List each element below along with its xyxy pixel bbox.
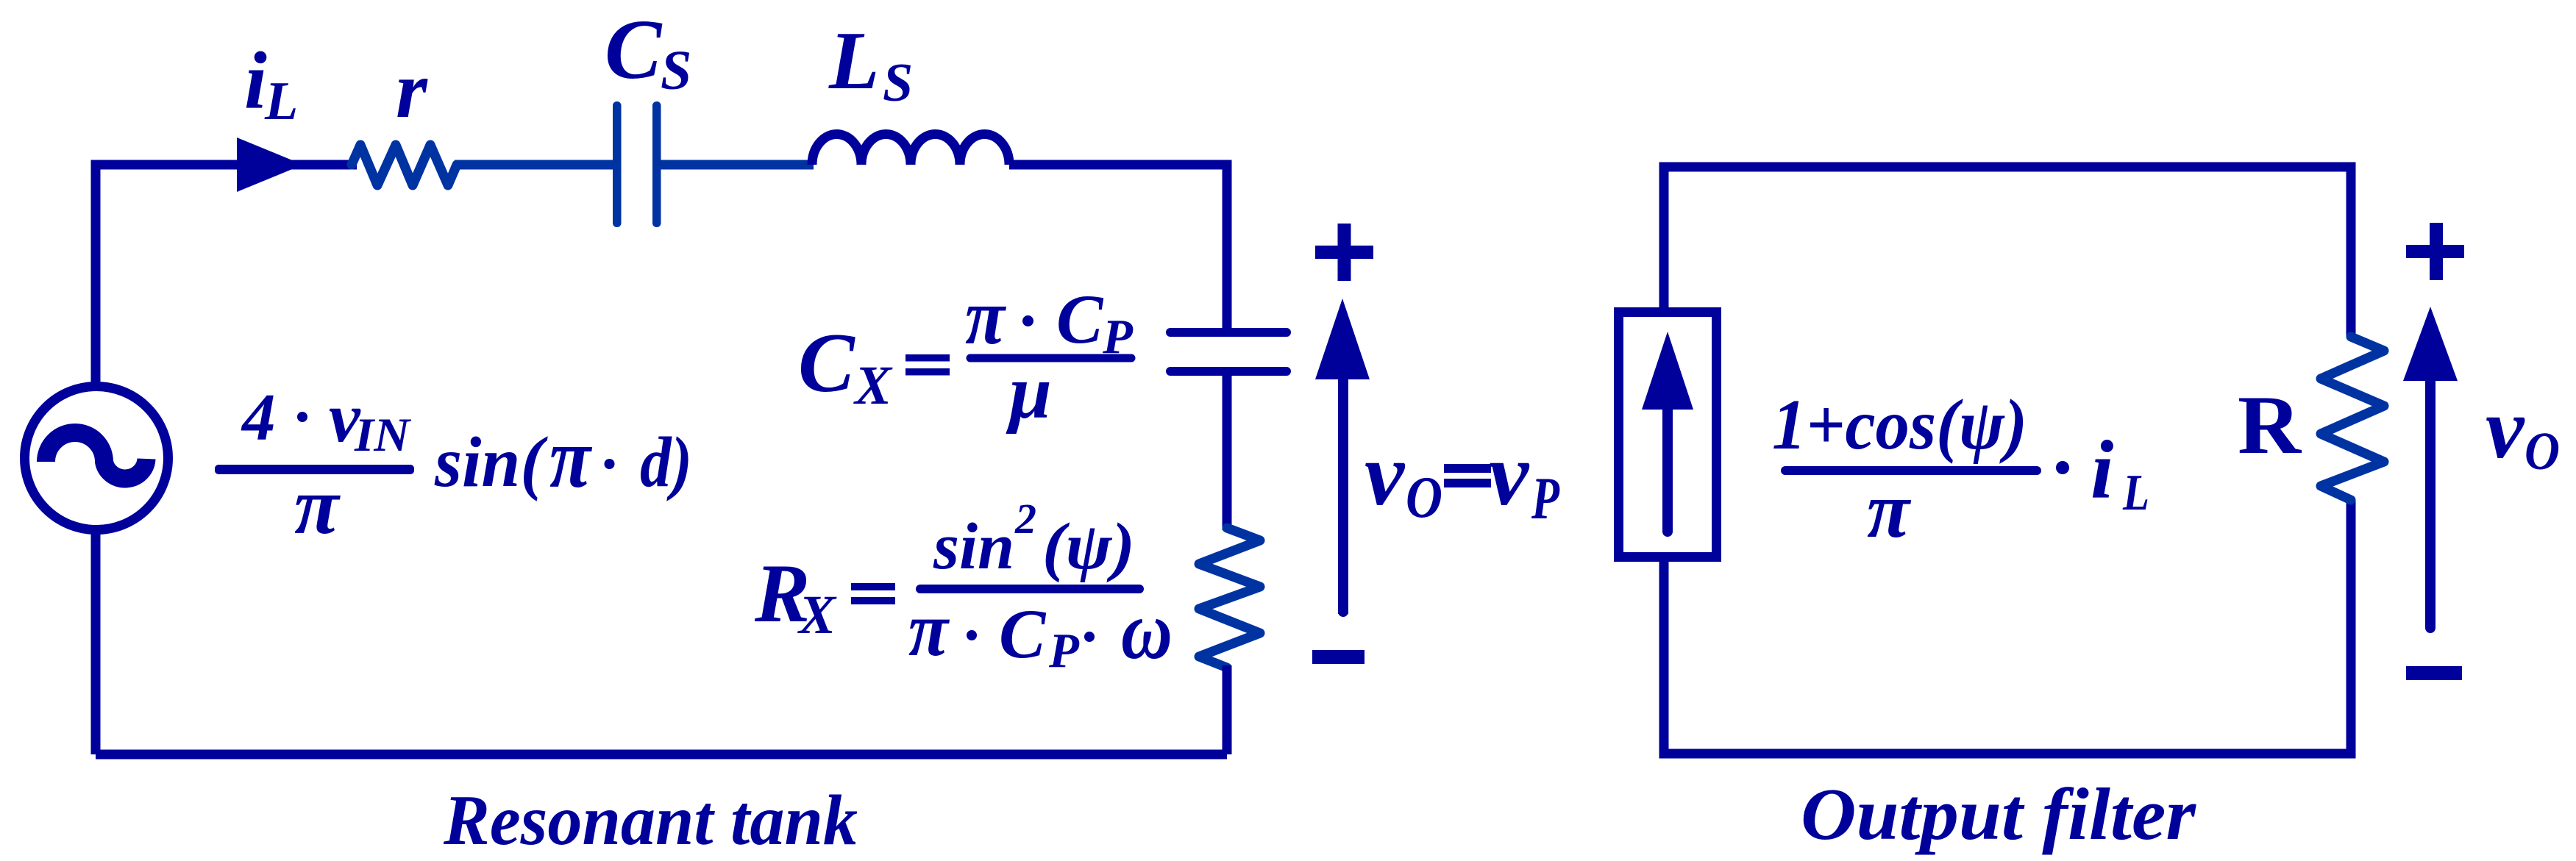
svg-text:C: C xyxy=(798,316,855,410)
minus sign right xyxy=(2406,666,2462,680)
svg-text:sin: sin xyxy=(933,510,1014,583)
inductor Ls xyxy=(812,134,1009,165)
svg-text:X: X xyxy=(853,355,893,416)
svg-text:1+cos(ψ): 1+cos(ψ) xyxy=(1772,385,2027,464)
wire: left circuit bottom wire xyxy=(96,750,1227,760)
caption Resonant tank xyxy=(443,781,858,860)
voltage arrow vO=vP xyxy=(1315,299,1370,617)
wire: box bottom to loop bottom, bottom wire, right vertical up to R xyxy=(1664,500,2351,754)
svg-text:π: π xyxy=(965,272,1006,361)
svg-text:π: π xyxy=(294,461,341,551)
current arrow iL xyxy=(237,137,303,192)
label Cx formula Cx = π·Cp/μ xyxy=(798,272,1134,435)
wire: Cs right plate to Ls xyxy=(661,160,814,170)
label source formula 4·vIN/π sin(π·d) xyxy=(215,378,692,551)
svg-text:C: C xyxy=(1056,280,1104,358)
svg-text:π: π xyxy=(549,410,592,506)
label iL xyxy=(244,36,298,132)
plus sign right xyxy=(2406,223,2464,280)
wire: Ls to top-right corner and down to Cx xyxy=(1009,165,1227,328)
label r xyxy=(396,45,428,135)
svg-text:μ: μ xyxy=(1006,350,1052,435)
label Ls xyxy=(828,15,913,113)
svg-text:4: 4 xyxy=(241,380,276,454)
svg-text:π: π xyxy=(1867,465,1911,554)
svg-text:v: v xyxy=(1365,425,1406,524)
wire: Cx to Rx xyxy=(1223,376,1232,530)
svg-text:2: 2 xyxy=(1014,495,1036,543)
wire: output loop top xyxy=(1664,167,2351,337)
svg-text:v: v xyxy=(1489,425,1530,524)
svg-text:ω: ω xyxy=(1121,585,1173,676)
svg-text:Output filter: Output filter xyxy=(1801,773,2197,855)
svg-text:O: O xyxy=(2525,421,2560,481)
svg-text:C: C xyxy=(999,595,1047,673)
svg-text:C: C xyxy=(605,3,663,97)
voltage arrow vO right xyxy=(2403,307,2458,633)
label R xyxy=(2238,379,2302,471)
plus sign left xyxy=(1315,224,1373,281)
svg-text:IN: IN xyxy=(354,409,411,462)
svg-text:Resonant tank: Resonant tank xyxy=(443,781,858,860)
svg-text:L: L xyxy=(2122,465,2149,521)
svg-text:S: S xyxy=(661,40,691,101)
svg-text:(ψ): (ψ) xyxy=(1042,510,1135,583)
label Cs xyxy=(605,3,691,101)
svg-text:X: X xyxy=(797,585,837,646)
svg-text:v: v xyxy=(2486,380,2525,476)
svg-text:r: r xyxy=(396,45,428,135)
current source box xyxy=(1619,312,1717,557)
svg-text:i: i xyxy=(244,36,267,126)
label Rx formula Rx = sin²(ψ)/(π·Cp·ω) xyxy=(754,495,1173,678)
wire: Rx to bottom wire xyxy=(1223,665,1232,754)
svg-text:sin(: sin( xyxy=(434,423,549,501)
resistor R xyxy=(2321,337,2384,500)
svg-text:P: P xyxy=(1048,624,1080,678)
capacitor Cx xyxy=(1166,328,1291,376)
svg-text:O: O xyxy=(1406,465,1442,530)
resistor Rx xyxy=(1199,528,1260,668)
wire: r to Cs left plate xyxy=(455,160,613,170)
AC source V1 xyxy=(25,387,168,530)
svg-text:R: R xyxy=(2238,379,2302,471)
svg-text:i: i xyxy=(2091,424,2113,516)
svg-text:S: S xyxy=(883,53,913,113)
svg-text:P: P xyxy=(1531,465,1559,532)
resistor r xyxy=(352,145,457,185)
svg-text:d): d) xyxy=(640,423,692,501)
capacitor Cs xyxy=(613,101,661,227)
svg-text:L: L xyxy=(264,71,298,132)
wire: left circuit top-left wire and left vertical xyxy=(96,165,357,754)
minus sign left xyxy=(1312,650,1365,664)
caption Output filter xyxy=(1801,773,2197,855)
label output current formula (1+cos(ψ))/π · iL xyxy=(1772,385,2149,554)
label vO right xyxy=(2486,380,2560,481)
svg-text:L: L xyxy=(828,15,879,107)
label vO=vP xyxy=(1365,425,1560,532)
svg-text:π: π xyxy=(908,586,950,672)
